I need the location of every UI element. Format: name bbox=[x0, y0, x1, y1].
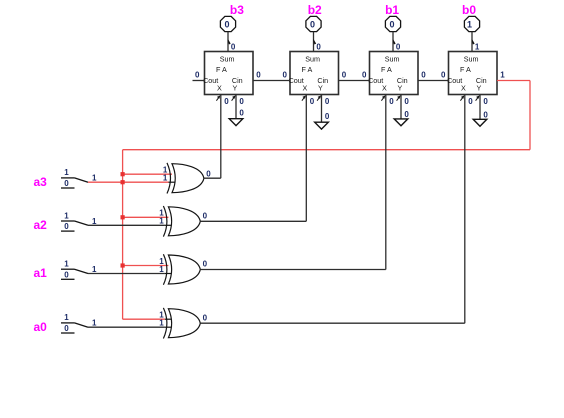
value label XOR a0 lower input = 1 bbox=[159, 319, 164, 328]
ground symbol below U4 Y bbox=[473, 119, 487, 126]
svg-text:0: 0 bbox=[483, 97, 488, 106]
wire Y of U2 to ground bbox=[321, 95, 323, 123]
ground symbol below U1 Y bbox=[229, 119, 243, 126]
wire XOR G2 output to X of U2 bbox=[200, 95, 306, 222]
label b1 bbox=[385, 3, 399, 17]
value label Y of U3 bbox=[404, 97, 409, 106]
svg-text:1: 1 bbox=[475, 42, 480, 51]
wire red branch to XOR a2 upper input bbox=[123, 216, 169, 218]
svg-text:0: 0 bbox=[396, 42, 401, 51]
wire switch a0 to XOR lower input bbox=[88, 326, 173, 328]
svg-text:0: 0 bbox=[64, 324, 69, 333]
svg-text:1: 1 bbox=[92, 174, 97, 183]
value label Sum of U4 bbox=[475, 42, 480, 51]
value label switch a1 output = 1 bbox=[92, 265, 97, 274]
value label XOR a3 upper input = 1 bbox=[163, 166, 168, 175]
svg-text:0: 0 bbox=[468, 97, 473, 106]
svg-text:0: 0 bbox=[224, 97, 229, 106]
svg-text:F A: F A bbox=[216, 65, 227, 74]
pin X of U4 (input arrow) bbox=[460, 95, 464, 100]
label a0 bbox=[34, 320, 48, 334]
value label ground constant 0 at U4 bbox=[483, 111, 488, 120]
svg-text:1: 1 bbox=[64, 211, 69, 220]
svg-text:1: 1 bbox=[64, 313, 69, 322]
svg-text:F A: F A bbox=[302, 65, 313, 74]
svg-text:0: 0 bbox=[310, 20, 315, 30]
svg-text:0: 0 bbox=[64, 222, 69, 231]
full adder U2 (b2 stage) bbox=[289, 52, 339, 95]
value label X of U1 bbox=[224, 97, 229, 106]
junction red rail / switch a3 wire bbox=[121, 180, 125, 184]
pin Y of U2 (input arrow) bbox=[317, 95, 321, 100]
wire switch a2 to XOR lower input bbox=[88, 224, 173, 226]
XOR gate G3 for a1 bbox=[163, 254, 200, 285]
wire red left vertical rail bbox=[122, 150, 124, 320]
value label switch a3 output = 1 bbox=[92, 174, 97, 183]
pin Y of U4 (input arrow) bbox=[476, 95, 480, 100]
svg-text:0: 0 bbox=[256, 71, 261, 80]
value label Sum of U2 bbox=[316, 42, 321, 51]
svg-text:0: 0 bbox=[325, 97, 330, 106]
wire Cin of U3 to Cout of U4 bbox=[418, 80, 449, 82]
svg-text:0: 0 bbox=[195, 71, 200, 80]
svg-text:Sum: Sum bbox=[385, 54, 400, 63]
value label XOR G2 output = 0 bbox=[203, 211, 208, 220]
svg-text:1: 1 bbox=[159, 265, 164, 274]
value label Y of U1 bbox=[239, 97, 244, 106]
svg-text:0: 0 bbox=[362, 71, 367, 80]
svg-text:0: 0 bbox=[325, 112, 330, 121]
value label Cout of U1 bbox=[195, 71, 200, 80]
label a2 bbox=[34, 218, 48, 232]
output pin b1 bbox=[385, 16, 400, 31]
pin Y of U3 (input arrow) bbox=[397, 95, 401, 100]
svg-text:0: 0 bbox=[342, 71, 347, 80]
svg-text:0: 0 bbox=[224, 20, 229, 30]
wire Sum of U2 to pin b2 bbox=[313, 32, 315, 52]
value label XOR a1 lower input = 1 bbox=[159, 265, 164, 274]
full adder U4 (b0 stage) bbox=[447, 52, 497, 95]
value label XOR G4 output = 0 bbox=[203, 313, 208, 322]
svg-text:Y: Y bbox=[477, 84, 482, 93]
wire red branch to XOR a3 upper input bbox=[123, 173, 172, 175]
label a3 bbox=[34, 175, 48, 189]
value label Y of U2 bbox=[325, 97, 330, 106]
svg-text:0: 0 bbox=[203, 313, 208, 322]
svg-text:0: 0 bbox=[483, 111, 488, 120]
svg-text:1: 1 bbox=[159, 319, 164, 328]
svg-text:Sum: Sum bbox=[305, 54, 320, 63]
pin X of U3 (input arrow) bbox=[381, 95, 385, 100]
label b2 bbox=[308, 3, 322, 17]
wire Sum of U1 to pin b3 bbox=[228, 32, 230, 52]
label b3 bbox=[230, 3, 244, 17]
wire Sum of U4 to pin b0 bbox=[472, 32, 474, 52]
wire switch a1 to XOR lower input bbox=[88, 273, 173, 275]
svg-text:0: 0 bbox=[231, 42, 236, 51]
wire red branch to XOR a1 upper input bbox=[123, 265, 169, 267]
svg-text:0: 0 bbox=[404, 110, 409, 119]
input switch a2 (set to 1) bbox=[61, 211, 88, 231]
output pin b3 bbox=[220, 16, 235, 31]
svg-text:Y: Y bbox=[398, 84, 403, 93]
svg-text:1: 1 bbox=[467, 20, 472, 30]
value label XOR a1 upper input = 1 bbox=[159, 257, 164, 266]
svg-text:F A: F A bbox=[381, 65, 392, 74]
wire Sum of U3 to pin b1 bbox=[393, 32, 395, 52]
wire Y of U3 to ground bbox=[400, 95, 402, 119]
value label X of U2 bbox=[310, 97, 315, 106]
value label Cin of U1 bbox=[256, 71, 261, 80]
svg-text:0: 0 bbox=[239, 97, 244, 106]
wire red right vertical rail bbox=[529, 81, 531, 150]
wire Cout stub of U1 bbox=[193, 80, 205, 82]
svg-text:1: 1 bbox=[92, 265, 97, 274]
pin X of U1 (input arrow) bbox=[216, 95, 220, 100]
full adder U3 (b1 stage) bbox=[368, 52, 418, 95]
value label Sum of U1 bbox=[231, 42, 236, 51]
svg-text:b0: b0 bbox=[462, 3, 476, 17]
svg-text:0: 0 bbox=[203, 211, 208, 220]
pin X of U2 (input arrow) bbox=[302, 95, 306, 100]
svg-text:X: X bbox=[461, 84, 466, 93]
pin Y of U1 (input arrow) bbox=[232, 95, 236, 100]
XOR gate G4 for a0 bbox=[163, 308, 200, 339]
svg-text:0: 0 bbox=[64, 270, 69, 279]
svg-text:Sum: Sum bbox=[220, 54, 235, 63]
value label Cout of U3 bbox=[362, 71, 367, 80]
value label ground constant 0 at U2 bbox=[325, 112, 330, 121]
value label XOR a0 upper input = 1 bbox=[159, 311, 164, 320]
svg-text:0: 0 bbox=[310, 97, 315, 106]
value label Cin of U4 = 1 bbox=[500, 71, 505, 80]
ground symbol below U3 Y bbox=[394, 119, 408, 126]
svg-text:0: 0 bbox=[206, 169, 211, 178]
junction red rail / a1 upper input bbox=[121, 263, 125, 267]
value label Cin of U3 bbox=[421, 71, 426, 80]
value label switch a0 output = 1 bbox=[92, 319, 97, 328]
wire Cin of U2 to Cout of U3 bbox=[339, 80, 370, 82]
wire XOR G4 output to X of U4 bbox=[200, 95, 465, 324]
svg-text:1: 1 bbox=[500, 71, 505, 80]
svg-text:0: 0 bbox=[421, 71, 426, 80]
XOR gate G2 for a2 bbox=[163, 206, 200, 237]
svg-text:0: 0 bbox=[283, 71, 288, 80]
value label switch a2 output = 1 bbox=[92, 217, 97, 226]
svg-text:1: 1 bbox=[159, 217, 164, 226]
output pin b0 bbox=[464, 16, 479, 31]
wire Cin of U1 to Cout of U2 bbox=[253, 80, 290, 82]
svg-text:X: X bbox=[303, 84, 308, 93]
svg-text:1: 1 bbox=[163, 174, 168, 183]
input switch a1 (set to 1) bbox=[61, 260, 88, 280]
svg-text:b1: b1 bbox=[385, 3, 399, 17]
svg-text:1: 1 bbox=[64, 260, 69, 269]
label a1 bbox=[34, 266, 48, 280]
svg-text:b2: b2 bbox=[308, 3, 322, 17]
svg-text:1: 1 bbox=[92, 319, 97, 328]
value label X of U4 bbox=[468, 97, 473, 106]
output pin b2 bbox=[306, 16, 321, 31]
svg-text:X: X bbox=[382, 84, 387, 93]
full adder U1 (b3 stage) bbox=[203, 52, 253, 95]
junction red rail / a2 upper input bbox=[121, 215, 125, 219]
svg-text:1: 1 bbox=[92, 217, 97, 226]
wire switch a3 to XOR lower input bbox=[88, 181, 177, 183]
wire Y of U4 to ground bbox=[479, 95, 481, 120]
svg-text:Sum: Sum bbox=[464, 54, 479, 63]
svg-text:0: 0 bbox=[404, 97, 409, 106]
value label ground constant 0 at U3 bbox=[404, 110, 409, 119]
value label X of U3 bbox=[389, 97, 394, 106]
svg-text:0: 0 bbox=[316, 42, 321, 51]
svg-text:Y: Y bbox=[318, 84, 323, 93]
svg-text:a3: a3 bbox=[34, 175, 48, 189]
value label XOR a3 lower input = 1 bbox=[163, 174, 168, 183]
svg-text:0: 0 bbox=[389, 20, 394, 30]
value label XOR G3 output = 0 bbox=[203, 260, 208, 269]
input switch a3 (set to 1) bbox=[61, 168, 88, 188]
svg-text:a0: a0 bbox=[34, 320, 48, 334]
wire XOR G3 output to X of U3 bbox=[200, 95, 385, 270]
label b0 bbox=[462, 3, 476, 17]
value label XOR G1 output = 0 bbox=[206, 169, 211, 178]
svg-text:0: 0 bbox=[441, 71, 446, 80]
svg-text:F A: F A bbox=[460, 65, 471, 74]
wire XOR G1 output to X of U1 bbox=[204, 95, 221, 179]
svg-text:a2: a2 bbox=[34, 218, 48, 232]
value label XOR a2 lower input = 1 bbox=[159, 217, 164, 226]
svg-text:X: X bbox=[217, 84, 222, 93]
svg-text:0: 0 bbox=[203, 260, 208, 269]
svg-text:a1: a1 bbox=[34, 266, 48, 280]
svg-text:b3: b3 bbox=[230, 3, 244, 17]
wire Y of U1 to ground bbox=[235, 95, 237, 119]
svg-text:1: 1 bbox=[64, 168, 69, 177]
junction red rail / a3 upper input bbox=[121, 172, 125, 176]
ground symbol below U2 Y bbox=[315, 122, 329, 129]
svg-text:Y: Y bbox=[233, 84, 238, 93]
wire red rail corner to XOR a0 upper input bbox=[123, 318, 173, 320]
value label Cout of U2 bbox=[283, 71, 288, 80]
value label Sum of U3 bbox=[396, 42, 401, 51]
XOR gate G1 for a3 bbox=[167, 163, 204, 194]
svg-text:0: 0 bbox=[389, 97, 394, 106]
svg-text:0: 0 bbox=[64, 179, 69, 188]
wire Cin of U4 to right rail (red, logic 1) bbox=[497, 80, 530, 82]
value label Y of U4 bbox=[483, 97, 488, 106]
svg-text:0: 0 bbox=[239, 108, 244, 117]
input switch a0 (set to 1) bbox=[61, 313, 88, 333]
value label ground constant 0 at U1 bbox=[239, 108, 244, 117]
value label XOR a2 upper input = 1 bbox=[159, 209, 164, 218]
value label Cin of U2 bbox=[342, 71, 347, 80]
value label Cout of U4 bbox=[441, 71, 446, 80]
wire red horizontal rail bbox=[123, 149, 530, 151]
